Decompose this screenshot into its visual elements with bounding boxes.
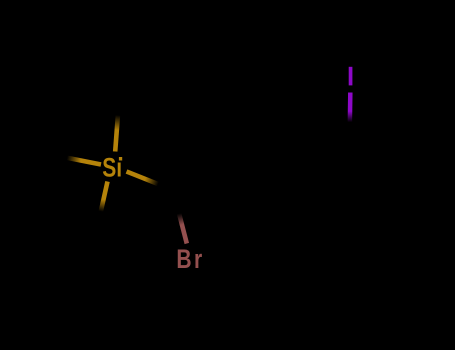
benzene ring (black on black, invisible) bbox=[292, 142, 406, 274]
bond I-ring (fading stub) bbox=[347, 93, 352, 143]
bond C2-ring (black on black, invisible) bbox=[235, 157, 292, 175]
atom label Si bbox=[102, 153, 122, 183]
atom label I bbox=[349, 67, 353, 86]
bond C1-Br (fading stub) bbox=[173, 190, 187, 244]
double bond C1=C2 (black on black, invisible) bbox=[173, 157, 235, 190]
bond Si-CH3 up (fading stub) bbox=[115, 98, 119, 152]
bond Si-CH3 left (fading stub) bbox=[48, 154, 101, 165]
atom label Br bbox=[176, 245, 204, 275]
bond Si-C1 down-right (fading stub) bbox=[127, 172, 174, 191]
svg-text:Br: Br bbox=[176, 245, 204, 275]
bond Si-CH3 down-left (fading stub) bbox=[96, 182, 108, 234]
